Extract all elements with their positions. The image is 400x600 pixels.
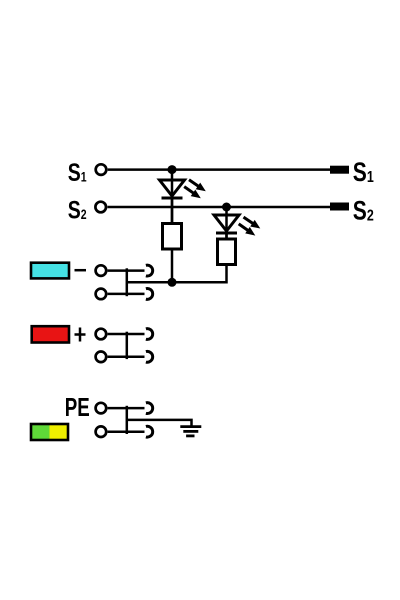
label S1 left — [68, 159, 87, 187]
label S1 right — [353, 158, 374, 188]
terminal circle S1 — [96, 164, 107, 175]
wire D1 cathode to R1 — [171, 198, 174, 224]
LED D2 — [214, 215, 239, 233]
terminal circle plus lower — [96, 352, 107, 363]
wire LED2 anode (runs through triangle) — [225, 207, 228, 239]
resistor R1 — [163, 224, 182, 250]
terminal circle S2 — [95, 202, 106, 213]
minus sign — [75, 269, 87, 272]
clamp contact PE upper — [146, 403, 153, 414]
wire PE lower — [108, 430, 145, 433]
clamp contact plus upper — [146, 329, 153, 340]
clamp contact PE lower — [146, 426, 153, 437]
marker green-yellow (PE) — [31, 424, 68, 440]
wire R2 down to minus bus — [172, 265, 227, 283]
terminal circle PE upper — [96, 403, 107, 414]
LED D2 arrows — [239, 217, 261, 236]
clamp bridge PE — [126, 406, 129, 434]
marker cyan (minus) — [31, 263, 69, 279]
wire minus upper — [108, 269, 145, 272]
terminal circle minus lower — [96, 289, 107, 300]
wire D2 cathode to R2 — [225, 233, 228, 239]
terminal bar S2 right — [330, 203, 349, 211]
minus bus line — [127, 281, 172, 284]
terminal bar S1 right — [330, 166, 349, 174]
clamp bridge minus — [126, 268, 129, 296]
wire PE to ground — [127, 420, 192, 427]
wire minus lower — [108, 293, 145, 296]
label S2 left — [68, 196, 87, 224]
svg-text:S1: S1 — [353, 158, 374, 188]
wire S2 — [108, 206, 331, 209]
plus sign — [75, 328, 86, 342]
label PE — [65, 392, 90, 422]
terminal circle minus upper — [96, 265, 107, 276]
LED D1 — [160, 180, 185, 198]
wire R1 to minus bus — [171, 249, 174, 282]
label S2 right — [353, 196, 374, 226]
svg-text:S2: S2 — [68, 196, 87, 224]
clamp contact minus upper — [146, 265, 153, 276]
ground — [180, 427, 201, 436]
wire S1 — [108, 168, 330, 171]
node junction J1 — [168, 165, 177, 174]
terminal circle plus upper — [96, 329, 107, 340]
svg-text:PE: PE — [65, 392, 90, 422]
marker red (plus) — [32, 326, 69, 342]
wire plus lower — [108, 356, 145, 359]
clamp contact plus lower — [146, 351, 153, 362]
resistor R2 — [218, 239, 236, 265]
svg-text:S2: S2 — [353, 196, 374, 226]
clamp contact minus lower — [146, 288, 153, 299]
terminal circle PE lower — [96, 426, 107, 437]
clamp bridge plus — [126, 332, 129, 359]
node junction J3 — [168, 278, 177, 287]
wire plus upper — [108, 333, 145, 336]
svg-text:S1: S1 — [68, 159, 87, 187]
wire LED1 anode (runs through triangle) — [171, 170, 174, 224]
LED D1 arrows — [184, 180, 206, 199]
wire PE upper — [108, 407, 145, 410]
node junction J2 — [222, 203, 231, 212]
